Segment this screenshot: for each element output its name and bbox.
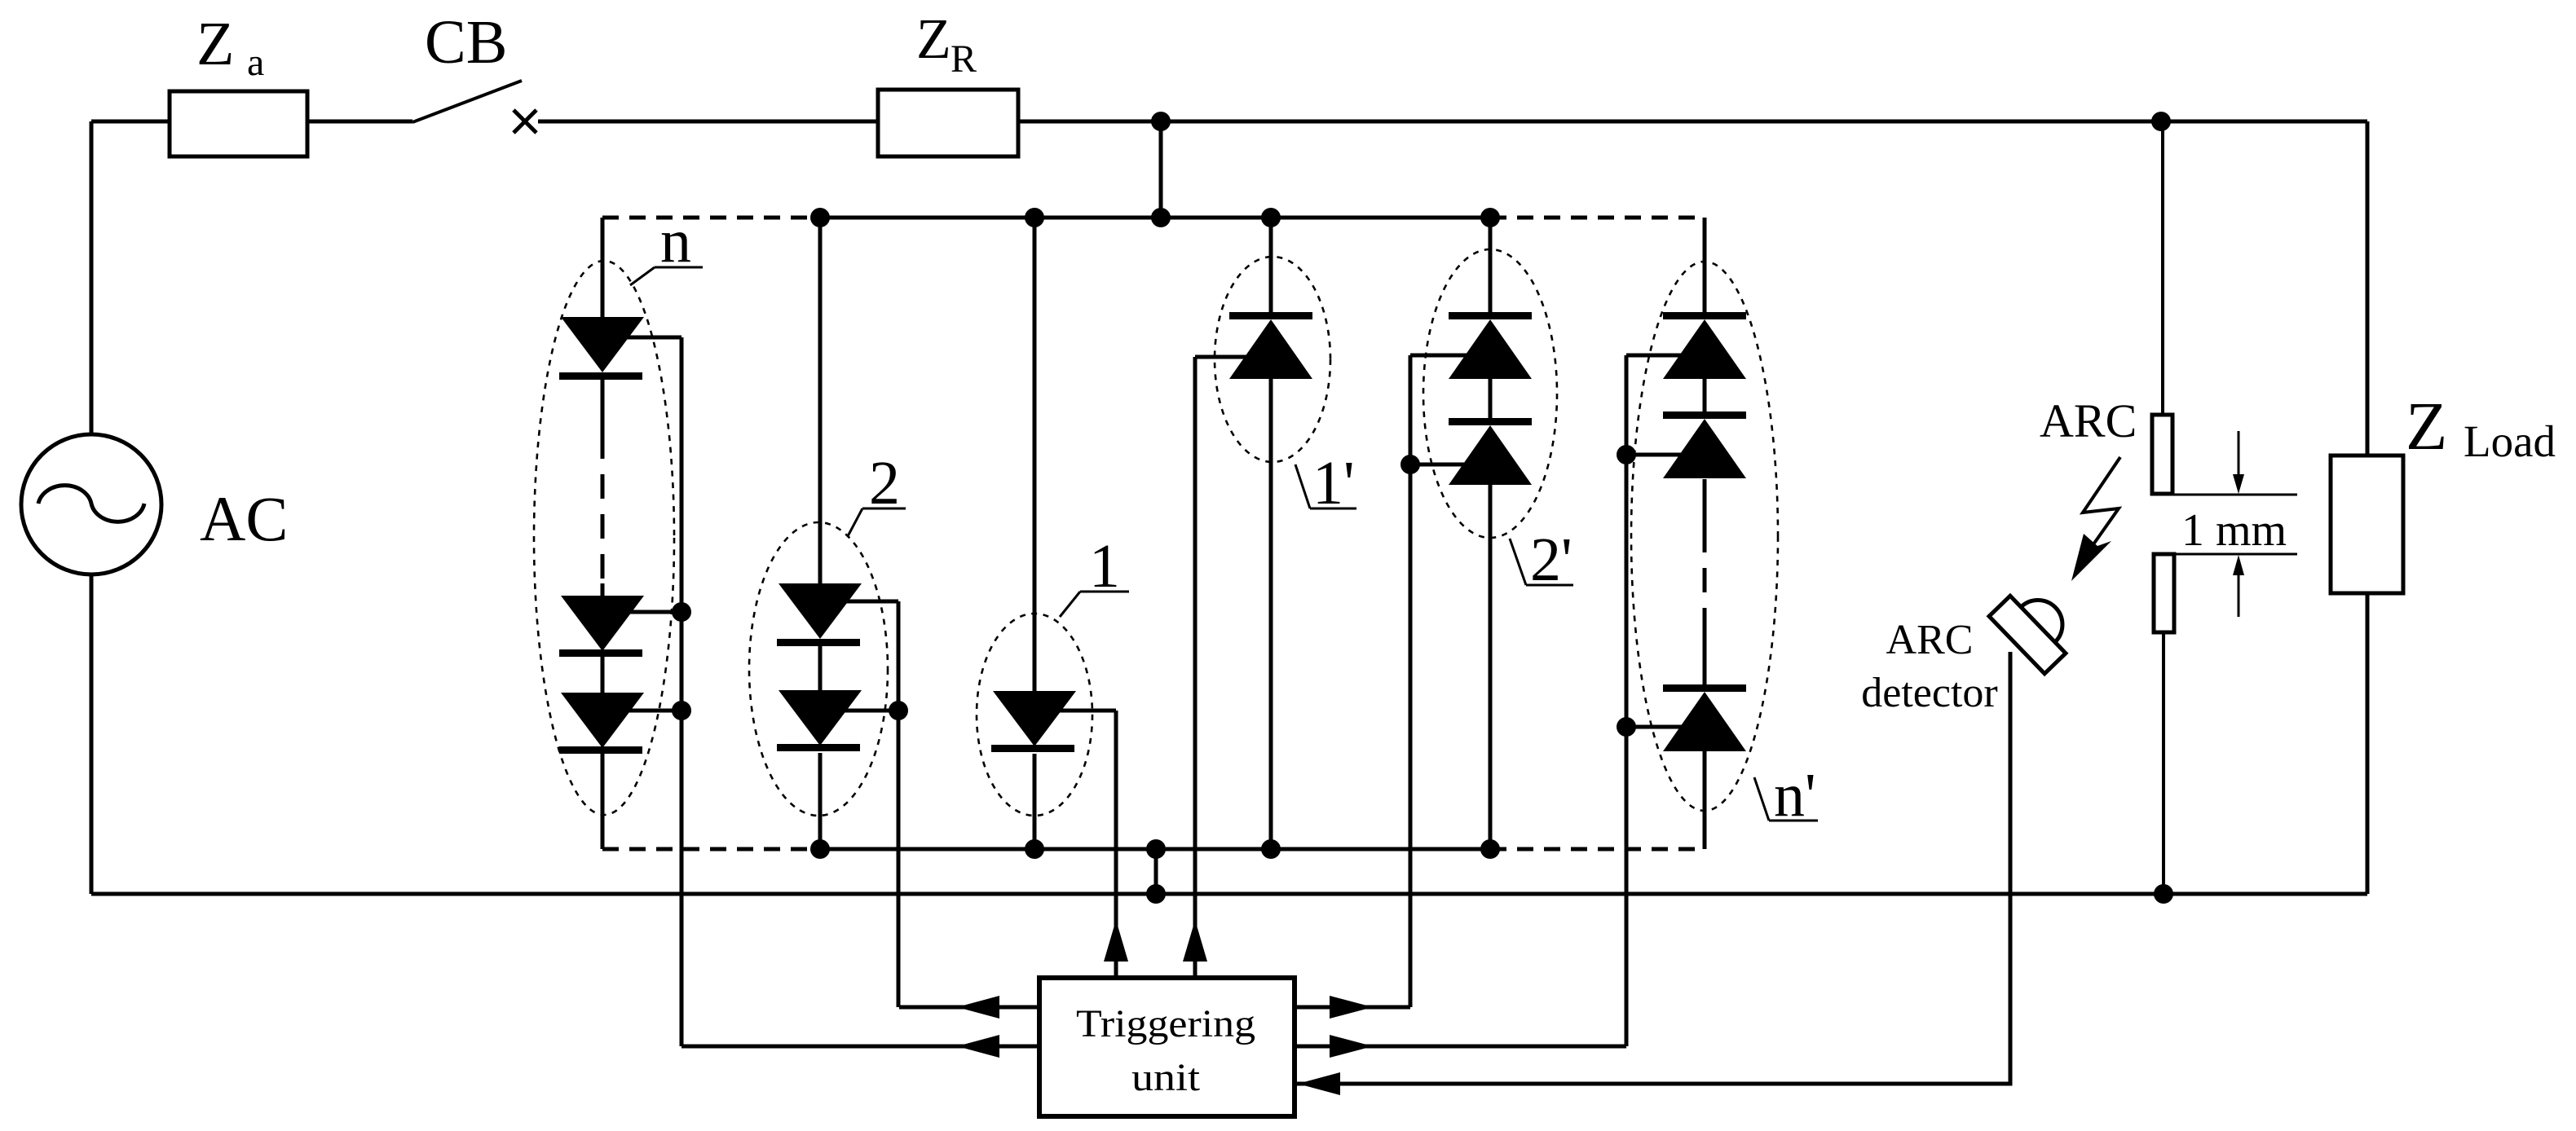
trigger wire right 1 to string 2' gates	[1295, 1006, 1410, 1010]
wire top horizontal X to ZR	[538, 120, 878, 124]
circuit breaker CB X mark	[514, 110, 536, 133]
node dot gate bus 2	[889, 701, 908, 720]
node dot bottom wire at gate-bus link	[1146, 884, 1166, 904]
ellipse group n'	[1631, 262, 1778, 811]
node dot top bus x=1559	[1261, 208, 1281, 227]
wire lower electrode to bottom wire	[2162, 632, 2165, 894]
node dot top bus x=1006	[810, 208, 830, 227]
svg-text:AC: AC	[200, 483, 288, 554]
thyristor string 1 wires	[1033, 218, 1037, 849]
trigger wire left 1 to string 2 gates	[899, 1006, 1039, 1010]
gate wires string 2	[836, 601, 898, 1007]
wire electrode drop from top wire	[2161, 121, 2164, 415]
ellipse group 1	[977, 614, 1092, 816]
thyristor n' middle (inverted)	[1663, 411, 1746, 419]
svg-text:n': n'	[1774, 761, 1816, 830]
thyristor 1	[993, 691, 1076, 746]
node dot bottom wire at electrode column	[2154, 884, 2173, 904]
svg-text:Z: Z	[916, 8, 951, 71]
thyristor 2 upper	[779, 583, 862, 639]
node dot gate bus n 1	[672, 602, 691, 622]
thyristor n' top (inverted)	[1663, 312, 1746, 319]
thyristor 2' upper (inverted)	[1449, 312, 1532, 319]
node dot top bus x=1424	[1151, 208, 1171, 227]
dimension line lower	[2154, 553, 2297, 556]
node dot bottom bus x=1828	[1480, 839, 1500, 859]
node dot top bus x=1269	[1025, 208, 1044, 227]
lightning arrow	[2083, 457, 2120, 544]
svg-text:ARC: ARC	[2040, 394, 2137, 447]
resistor Za box	[170, 91, 307, 156]
wire ZLoad to bottom wire	[2366, 593, 2370, 894]
thyristor 1' (inverted)	[1229, 312, 1312, 319]
wire CB switch blade	[412, 81, 522, 122]
ARC detector symbol	[1989, 579, 2084, 673]
AC source circle	[21, 434, 161, 574]
thyristor n top	[561, 317, 644, 372]
electrode upper	[2152, 415, 2172, 494]
svg-text:R: R	[951, 37, 977, 81]
svg-text:Z: Z	[2406, 389, 2447, 464]
svg-text:Z: Z	[196, 10, 234, 78]
svg-text:2: 2	[869, 449, 900, 517]
svg-text:ARC: ARC	[1886, 617, 1974, 663]
svg-text:1: 1	[1089, 532, 1120, 601]
wire ZR junction drop to bus	[1159, 121, 1163, 218]
node dot top bus x=1828	[1480, 208, 1500, 227]
thyristor string 2 wires	[818, 218, 823, 849]
arrow up gate 1	[1104, 920, 1128, 962]
load ZLoad box	[2331, 455, 2403, 593]
thyristor n' bottom (inverted)	[1663, 684, 1746, 692]
arrow up gate 1'	[1183, 920, 1207, 962]
node dot gate bus n' 2	[1617, 717, 1636, 737]
wire right edge down to ZLoad	[2366, 121, 2370, 455]
node dot top wire at electrode drop	[2151, 112, 2171, 131]
resistor ZR box	[878, 90, 1018, 156]
node dot gate bus n' 1	[1617, 445, 1636, 464]
electrode lower	[2154, 554, 2174, 632]
svg-text:Triggering: Triggering	[1076, 1002, 1255, 1045]
arrow into box from detector	[1298, 1072, 1340, 1095]
svg-text:n: n	[660, 207, 691, 275]
trigger wire from ARC detector	[1295, 652, 2010, 1084]
svg-text:Load: Load	[2464, 416, 2556, 466]
node dot top wire at ZR junction	[1151, 112, 1171, 131]
gate wires string 2'	[1410, 355, 1474, 1007]
node dot gate bus n 2	[672, 701, 691, 720]
wire top-left vertical from AC source	[90, 121, 94, 434]
node dot bottom bus x=1006	[810, 839, 830, 859]
dimension line upper	[2152, 494, 2297, 496]
svg-text:unit: unit	[1131, 1056, 1201, 1099]
ellipse group 2	[749, 522, 888, 816]
gate wire string 1	[1051, 711, 1116, 978]
node dot bottom bus x=1418	[1146, 839, 1166, 859]
thyristor string 1' wires	[1269, 218, 1273, 849]
svg-text:1': 1'	[1312, 449, 1355, 517]
thyristor 2 lower	[779, 690, 862, 746]
node dot gate bus 2'	[1400, 455, 1420, 474]
wire top horizontal ZR to right corner	[1018, 120, 2367, 124]
gate wire string 1'	[1195, 357, 1255, 978]
Triggering unit box	[1039, 978, 1295, 1116]
gate wires string n	[620, 337, 681, 1046]
ellipse group 2'	[1423, 249, 1557, 538]
svg-text:detector: detector	[1861, 670, 1997, 716]
node dot bottom bus x=1269	[1025, 839, 1044, 859]
trigger wire right 2 to string n' gates	[1295, 1045, 1626, 1049]
wire top horizontal AC to Za	[91, 120, 170, 124]
arrow left 1	[957, 996, 999, 1019]
wire bottom main horizontal	[91, 892, 2367, 896]
svg-text:a: a	[247, 41, 264, 84]
trigger wire left 2 to string n gates	[681, 1045, 1039, 1049]
ellipse group n	[534, 261, 674, 815]
wire AC source bottom vertical	[90, 574, 94, 894]
thyristor 2' lower (inverted)	[1449, 418, 1532, 425]
thyristor n middle	[561, 596, 644, 651]
arrow left 2	[957, 1035, 999, 1058]
thyristor string n' wires	[1703, 218, 1707, 849]
dashed bus bottom border	[602, 847, 1705, 852]
svg-text:1 mm: 1 mm	[2181, 505, 2287, 556]
dimension arrow lower	[2238, 574, 2240, 617]
node dot bottom bus x=1559	[1261, 839, 1281, 859]
gate wires string n'	[1626, 355, 1688, 1046]
AC source sine wave	[38, 486, 144, 522]
dimension arrow upper	[2238, 431, 2240, 476]
ellipse group 1'	[1215, 257, 1330, 462]
dashed bus top border	[602, 216, 1705, 220]
svg-text:CB: CB	[425, 8, 507, 77]
wire link dashed box to bottom wire	[1154, 849, 1158, 894]
thyristor n bottom	[561, 693, 644, 748]
arrow right 1	[1330, 996, 1373, 1019]
wire Za to CB	[307, 120, 412, 124]
svg-text:2': 2'	[1530, 526, 1573, 594]
thyristor string 2' wires	[1489, 218, 1493, 849]
thyristor string n wires	[601, 218, 605, 849]
arrow right 2	[1330, 1035, 1373, 1058]
